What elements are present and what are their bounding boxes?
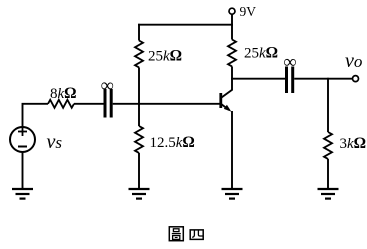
wire source to input	[23, 104, 49, 127]
resistor 25k left	[135, 41, 143, 68]
wire right branch upper	[231, 24, 233, 40]
resistor 25k right	[228, 40, 236, 67]
svg-text:3kΩ: 3kΩ	[340, 135, 367, 152]
svg-text:vo: vo	[345, 50, 362, 72]
ground source	[12, 189, 33, 199]
transistor Q1 emitter	[222, 104, 232, 111]
svg-text:9V: 9V	[240, 4, 257, 19]
wire left branch upper	[138, 24, 140, 41]
svg-text:25kΩ: 25kΩ	[148, 48, 182, 65]
svg-text:12.5kΩ: 12.5kΩ	[150, 134, 195, 151]
wire collector node to output cap	[231, 78, 286, 80]
wire left branch lower	[138, 67, 140, 105]
wire load branch upper	[327, 78, 329, 132]
source vs	[10, 127, 35, 152]
transistor Q1 base bar	[219, 93, 222, 108]
wire source to ground	[22, 152, 24, 189]
wire emitter to ground	[231, 111, 233, 189]
resistor 8k	[48, 100, 74, 108]
caption character Tu (figure)	[169, 227, 183, 241]
wire input cap to base	[113, 103, 220, 105]
capacitor output (infinity)	[287, 67, 293, 94]
wire output cap to vo	[294, 78, 352, 80]
svg-text:vs: vs	[47, 131, 63, 153]
svg-text:∞: ∞	[284, 52, 297, 72]
wire collector branch	[231, 66, 233, 90]
wire divider branch	[138, 104, 140, 126]
svg-text:∞: ∞	[101, 75, 114, 95]
caption character Si (four)	[190, 230, 203, 240]
wire resistor to input cap	[74, 103, 104, 105]
wire divider to ground	[138, 153, 140, 189]
ground divider	[129, 189, 150, 199]
wire load branch lower	[327, 159, 329, 189]
capacitor input (infinity)	[105, 89, 111, 118]
transistor Q1 collector	[222, 90, 233, 98]
resistor 3k	[324, 132, 332, 159]
node 9V terminal	[229, 8, 235, 25]
resistor 12.5k	[135, 126, 143, 153]
svg-text:25kΩ: 25kΩ	[244, 45, 278, 62]
ground load	[318, 189, 339, 199]
ground emitter	[222, 189, 243, 199]
wire top rail	[138, 24, 233, 26]
node vo terminal	[353, 76, 359, 82]
svg-text:8kΩ: 8kΩ	[50, 85, 77, 102]
